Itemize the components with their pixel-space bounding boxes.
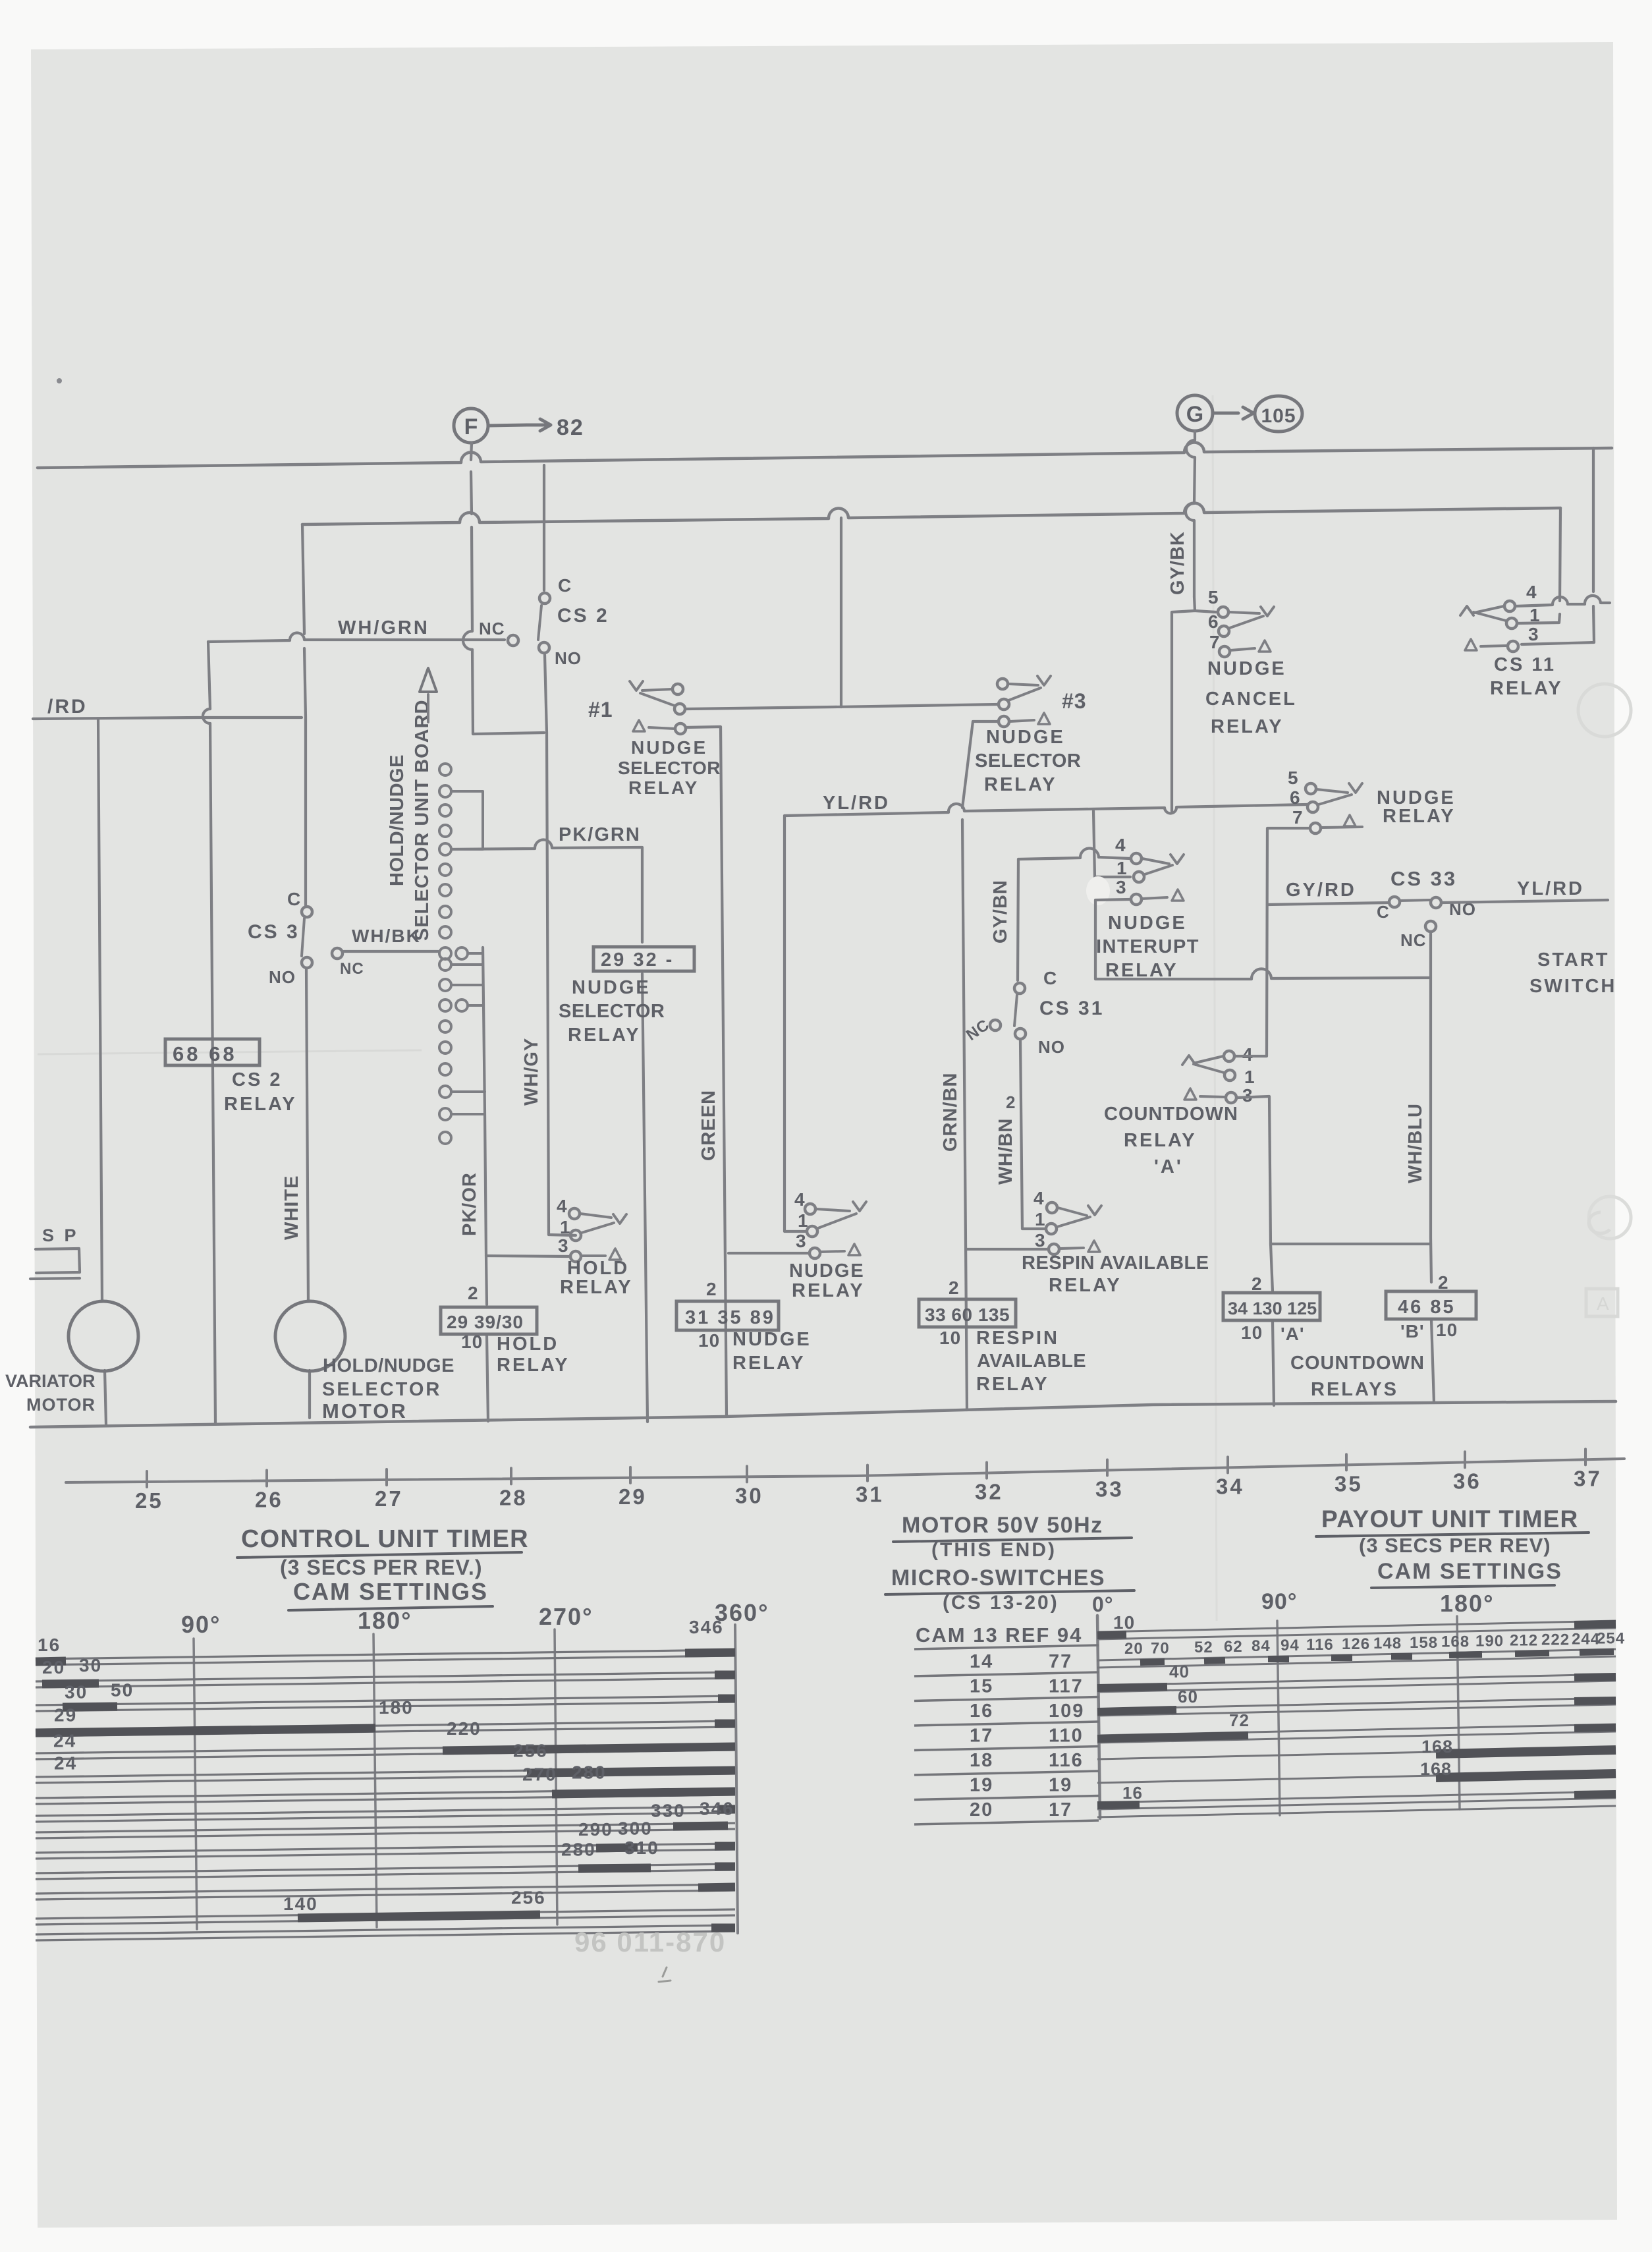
svg-text:RELAY: RELAY: [1105, 960, 1178, 981]
connector pin circle 10: [439, 947, 451, 959]
svg-text:CANCEL: CANCEL: [1205, 689, 1297, 710]
connector pin circle 14: [439, 1021, 451, 1032]
svg-text:A: A: [1597, 1293, 1609, 1314]
payout chart row cam20: [1097, 1791, 1616, 1803]
connector pin circle 16: [439, 1063, 451, 1075]
wire YL/RD tee down to interrupt relay: [1093, 811, 1130, 877]
svg-text:26: 26: [255, 1487, 283, 1511]
svg-text:MICRO-SWITCHES: MICRO-SWITCHES: [891, 1565, 1105, 1590]
svg-text:33: 33: [1095, 1477, 1124, 1502]
ruler tick 29: [629, 1467, 632, 1483]
svg-text:NUDGE: NUDGE: [1207, 658, 1286, 679]
svg-text:CS 31: CS 31: [1039, 998, 1104, 1019]
connector pin circle 1: [439, 764, 451, 775]
svg-text:50: 50: [111, 1679, 134, 1700]
payout chart row cam14 with angle labels: [1097, 1649, 1616, 1660]
connector pin circle 8: [439, 906, 451, 918]
svg-text:RELAY: RELAY: [568, 1025, 641, 1046]
node G with arrow to node 105: [1177, 395, 1213, 431]
svg-text:START: START: [1537, 949, 1610, 971]
svg-text:168: 168: [1441, 1633, 1470, 1651]
svg-text:29 32 -: 29 32 -: [601, 949, 674, 971]
ruler tick 28: [510, 1468, 512, 1484]
svg-text:2: 2: [1252, 1274, 1263, 1294]
wire WH/GY vertical: [545, 655, 576, 1235]
svg-text:PK/OR: PK/OR: [459, 1172, 480, 1236]
svg-text:RESPIN AVAILABLE: RESPIN AVAILABLE: [1022, 1253, 1209, 1274]
svg-text:19: 19: [1049, 1775, 1072, 1796]
svg-text:'B': 'B': [1400, 1321, 1425, 1341]
gridline 90: [194, 1639, 197, 1929]
svg-text:INTERUPT: INTERUPT: [1096, 936, 1199, 957]
svg-text:NC: NC: [479, 619, 505, 638]
svg-text:34: 34: [1216, 1474, 1244, 1498]
svg-text:256: 256: [513, 1740, 548, 1760]
svg-text:180°: 180°: [358, 1607, 412, 1634]
ruler tick 30: [746, 1466, 748, 1482]
white-out patch: [1086, 876, 1110, 905]
svg-text:5: 5: [1208, 587, 1219, 607]
svg-text:RELAY: RELAY: [976, 1374, 1049, 1395]
gridline 180: [373, 1634, 377, 1927]
svg-text:110: 110: [1049, 1726, 1084, 1747]
svg-text:15: 15: [970, 1676, 993, 1697]
wire from CS31-C left-up and right to contact 4: [1018, 848, 1130, 859]
wire PK/OR vertical: [483, 947, 488, 1421]
svg-text:10: 10: [1241, 1322, 1263, 1343]
svg-text:126: 126: [1342, 1635, 1370, 1653]
svg-text:RELAY: RELAY: [1049, 1275, 1122, 1296]
svg-text:35: 35: [1335, 1471, 1363, 1496]
cam row 1 lines: [36, 1650, 735, 1659]
svg-text:C: C: [1043, 968, 1057, 988]
connector pin circle 18: [439, 1108, 451, 1120]
relay contact nudge cancel: [1194, 597, 1216, 612]
connector pin circle 4: [439, 825, 451, 837]
svg-text:SELECTOR UNIT BOARD: SELECTOR UNIT BOARD: [412, 700, 433, 941]
cam row 3 lines: [36, 1696, 735, 1705]
cam row 12 lines: [36, 1884, 735, 1894]
ruler tick 34: [1226, 1457, 1229, 1473]
svg-text:CS 11: CS 11: [1494, 654, 1556, 675]
svg-text:4: 4: [1033, 1188, 1045, 1208]
wire from main bus down right: [1522, 448, 1594, 644]
contact NC of CS2 relay: [508, 635, 518, 646]
svg-text:30: 30: [735, 1483, 763, 1507]
svg-text:29 39/30: 29 39/30: [447, 1312, 524, 1332]
svg-text:84: 84: [1252, 1637, 1271, 1655]
svg-text:WH/GY: WH/GY: [521, 1038, 542, 1106]
svg-text:310: 310: [624, 1838, 659, 1858]
svg-text:GRN/BN: GRN/BN: [940, 1073, 961, 1152]
contact NC + wire WH/BK: [332, 948, 343, 959]
svg-text:30: 30: [65, 1681, 88, 1702]
svg-text:RELAY: RELAY: [1211, 716, 1284, 737]
svg-text:NUDGE: NUDGE: [789, 1260, 865, 1281]
wire GY/RD: [1267, 903, 1389, 905]
switch CS3: [302, 907, 312, 917]
svg-text:36: 36: [1453, 1469, 1481, 1493]
svg-text:62: 62: [1224, 1638, 1243, 1656]
svg-text:CS 2: CS 2: [232, 1069, 282, 1090]
svg-text:SWITCH: SWITCH: [1529, 976, 1616, 997]
svg-text:NO: NO: [269, 967, 296, 987]
svg-text:RELAY: RELAY: [792, 1280, 865, 1301]
svg-text:27: 27: [375, 1486, 403, 1511]
svg-text:CAM 13 REF 94: CAM 13 REF 94: [916, 1623, 1082, 1647]
svg-text:20: 20: [1124, 1640, 1143, 1658]
gridline 270: [555, 1629, 557, 1925]
connector stub wires low: [451, 1092, 485, 1114]
svg-text:300: 300: [618, 1818, 653, 1838]
svg-text:28: 28: [499, 1485, 528, 1509]
svg-text:31: 31: [856, 1482, 884, 1507]
svg-text:254: 254: [1597, 1630, 1625, 1648]
svg-text:1: 1: [1244, 1067, 1255, 1087]
svg-text:7: 7: [1292, 807, 1304, 828]
payout chart row cam16: [1097, 1698, 1616, 1709]
svg-text:HOLD/NUDGE: HOLD/NUDGE: [323, 1355, 454, 1376]
svg-text:3: 3: [558, 1235, 569, 1256]
svg-text:4: 4: [1242, 1044, 1253, 1065]
svg-text:34 130 125: 34 130 125: [1228, 1299, 1317, 1318]
connector stub wires mid: [451, 953, 483, 1005]
svg-text:RELAY: RELAY: [560, 1277, 633, 1298]
svg-text:109: 109: [1049, 1701, 1084, 1722]
svg-text:116: 116: [1306, 1636, 1334, 1654]
ruler tick 35: [1345, 1454, 1348, 1470]
svg-text:52: 52: [1194, 1639, 1213, 1656]
faint stamp box: [1586, 1289, 1618, 1316]
svg-text:NUDGE: NUDGE: [986, 727, 1065, 748]
svg-text:C: C: [558, 575, 572, 596]
relay contact #3 nudge selector: [997, 679, 1008, 689]
svg-text:10: 10: [698, 1330, 720, 1351]
payout chart row cam19: [1097, 1772, 1616, 1783]
svg-text:290: 290: [578, 1819, 613, 1840]
svg-text:10: 10: [939, 1328, 961, 1348]
svg-text:222: 222: [1541, 1631, 1570, 1648]
cam row 5 lines: [36, 1744, 735, 1753]
svg-text:6: 6: [1208, 611, 1219, 632]
svg-text:RELAY: RELAY: [497, 1355, 570, 1376]
gridline 90 deg: [1277, 1621, 1280, 1815]
svg-text:NUDGE: NUDGE: [1108, 913, 1187, 934]
svg-text:PAYOUT UNIT TIMER: PAYOUT UNIT TIMER: [1321, 1506, 1578, 1533]
svg-text:4: 4: [794, 1189, 806, 1210]
cam row 4 lines: [36, 1721, 735, 1730]
svg-text:10: 10: [1113, 1612, 1135, 1633]
svg-text:16: 16: [970, 1701, 993, 1722]
svg-text:2: 2: [468, 1283, 479, 1303]
svg-text:70: 70: [1151, 1639, 1170, 1657]
svg-text:SELECTOR: SELECTOR: [618, 758, 721, 778]
svg-text:10: 10: [1436, 1320, 1458, 1340]
svg-text:3: 3: [796, 1231, 807, 1251]
svg-text:WH/GRN: WH/GRN: [338, 617, 429, 638]
svg-text:RELAY: RELAY: [984, 774, 1057, 795]
svg-text:168: 168: [1421, 1737, 1453, 1757]
svg-text:0°: 0°: [1092, 1592, 1114, 1616]
wire CS3/WHITE vertical: [302, 524, 310, 1418]
svg-text:YL/RD: YL/RD: [1517, 878, 1584, 899]
cam row 8 lines: [36, 1807, 735, 1816]
speck: [57, 378, 62, 383]
wire YL/RD right: [1442, 900, 1608, 903]
svg-text:NUDGE: NUDGE: [732, 1329, 812, 1350]
payout chart row cam17: [1097, 1724, 1616, 1735]
svg-text:24: 24: [53, 1731, 76, 1751]
paper crease horizontal: [38, 1050, 422, 1054]
svg-text:4: 4: [1115, 835, 1126, 855]
svg-text:GREEN: GREEN: [698, 1090, 719, 1161]
svg-text:94: 94: [1280, 1637, 1300, 1654]
svg-text:(3 SECS PER REV.): (3 SECS PER REV.): [280, 1556, 482, 1579]
wire WH/BN from CS31 NO down: [1020, 1041, 1045, 1229]
wire: G drop through buses: [1186, 431, 1195, 597]
ruler tick 33: [1106, 1460, 1109, 1476]
svg-text:2: 2: [706, 1279, 717, 1299]
connector pin circle 17: [439, 1086, 451, 1098]
svg-text:HOLD: HOLD: [497, 1334, 559, 1355]
svg-text:CS 2: CS 2: [557, 605, 609, 627]
switch CS31: [1014, 983, 1025, 994]
relay box 68 68 (CS2 relay coil): [165, 1039, 260, 1065]
svg-text:3: 3: [1116, 877, 1127, 897]
svg-text:37: 37: [1574, 1466, 1602, 1490]
svg-text:RELAY: RELAY: [732, 1353, 806, 1374]
svg-text:270°: 270°: [539, 1603, 593, 1630]
svg-text:256: 256: [511, 1887, 546, 1907]
svg-text:WH/BLU: WH/BLU: [1405, 1103, 1426, 1183]
cam row 13 lines: [36, 1909, 735, 1919]
wire PK/GRN: [451, 839, 647, 1422]
svg-text:168: 168: [1420, 1759, 1452, 1779]
svg-text:3: 3: [1035, 1230, 1046, 1251]
svg-text:158: 158: [1410, 1634, 1438, 1652]
svg-text:180: 180: [379, 1697, 414, 1718]
svg-text:33 60 135: 33 60 135: [925, 1305, 1010, 1325]
svg-text:32: 32: [975, 1480, 1003, 1504]
wire /RD: [33, 718, 302, 719]
wire: F drop to main bus and beyond: [463, 443, 544, 734]
svg-text:148: 148: [1373, 1635, 1402, 1652]
svg-text:3: 3: [1242, 1085, 1253, 1106]
payout chart row cam13: [1097, 1621, 1616, 1632]
svg-text:YL/RD: YL/RD: [823, 793, 890, 814]
svg-text:6: 6: [1290, 787, 1301, 808]
svg-text:NO: NO: [1038, 1037, 1065, 1057]
svg-text:MOTOR: MOTOR: [26, 1395, 96, 1415]
svg-text:RELAY: RELAY: [1124, 1130, 1197, 1151]
svg-text:2: 2: [1438, 1272, 1449, 1293]
svg-text:CS 3: CS 3: [248, 921, 300, 943]
wire V from second bus: [840, 518, 842, 707]
svg-text:CAM SETTINGS: CAM SETTINGS: [293, 1578, 488, 1605]
ruler tick 36: [1464, 1451, 1466, 1467]
ruler tick 32: [985, 1463, 988, 1478]
svg-text:WH/BN: WH/BN: [995, 1118, 1016, 1185]
gridline 360 / right edge: [735, 1625, 738, 1933]
svg-text:RESPIN: RESPIN: [976, 1328, 1059, 1349]
ruler tick 31: [866, 1465, 869, 1481]
wire bottom bus: [30, 1401, 1616, 1427]
svg-text:PK/GRN: PK/GRN: [559, 824, 641, 845]
svg-text:116: 116: [1049, 1750, 1084, 1771]
cam row 6 lines: [36, 1768, 735, 1777]
wire variator branch: [98, 719, 106, 1424]
svg-text:68 68: 68 68: [173, 1042, 237, 1065]
svg-text:5: 5: [1288, 768, 1299, 788]
svg-text:24: 24: [54, 1753, 77, 1774]
svg-text:MOTOR 50V 50Hz: MOTOR 50V 50Hz: [902, 1513, 1103, 1538]
svg-text:(CS 13-20): (CS 13-20): [943, 1592, 1059, 1614]
cam row 14 lines: [36, 1925, 735, 1934]
wire WH/BLU: [1431, 934, 1434, 1403]
ruler tick 26: [265, 1470, 268, 1486]
connector pin circle 3: [439, 804, 451, 816]
svg-text:'A': 'A': [1154, 1156, 1183, 1177]
relay box 29 32 -: [593, 947, 694, 971]
svg-text:GY/BN: GY/BN: [990, 880, 1011, 943]
svg-text:17: 17: [1049, 1799, 1072, 1820]
svg-text:4: 4: [557, 1196, 568, 1216]
svg-text:280: 280: [572, 1762, 607, 1782]
svg-text:/RD: /RD: [47, 696, 88, 718]
svg-text:COUNTDOWN: COUNTDOWN: [1104, 1104, 1238, 1125]
wire from second bus down: [1518, 508, 1560, 623]
svg-text:96 011-870: 96 011-870: [574, 1927, 726, 1957]
svg-text:NUDGE: NUDGE: [572, 977, 651, 998]
svg-text:2: 2: [1006, 1092, 1016, 1112]
svg-text:90°: 90°: [181, 1611, 221, 1638]
svg-text:G: G: [1186, 402, 1203, 427]
svg-text:CAM SETTINGS: CAM SETTINGS: [1377, 1559, 1562, 1584]
cam row 2 lines: [36, 1672, 735, 1681]
wire YL/RD with drop: [785, 804, 1307, 816]
svg-text:SELECTOR: SELECTOR: [559, 1001, 665, 1022]
svg-text:NUDGE: NUDGE: [631, 737, 707, 758]
connector bracket wires top: [451, 791, 483, 849]
faint stamp circle 2: [1589, 1196, 1631, 1239]
svg-text:17: 17: [970, 1726, 993, 1747]
svg-text:C: C: [1377, 902, 1390, 922]
svg-text:16: 16: [1122, 1783, 1143, 1803]
svg-text:346: 346: [700, 1799, 734, 1819]
relay contact CS11: [1504, 601, 1515, 611]
cam row 7 lines: [36, 1789, 735, 1798]
connector pin circle 15: [439, 1042, 451, 1054]
svg-text:18: 18: [970, 1750, 993, 1771]
svg-text:20: 20: [970, 1799, 993, 1820]
svg-text:(THIS END): (THIS END): [931, 1539, 1057, 1561]
svg-text:40: 40: [1169, 1662, 1190, 1681]
svg-text:244: 244: [1572, 1630, 1600, 1648]
svg-text:14: 14: [970, 1651, 993, 1672]
connector pin circle 6: [439, 864, 451, 876]
svg-text:NO: NO: [555, 648, 582, 668]
gridline 0 deg: [1097, 1616, 1100, 1818]
svg-text:CS 33: CS 33: [1390, 867, 1457, 890]
connector pin circle 9: [439, 926, 451, 938]
ruler tick 27: [385, 1469, 388, 1485]
hold/nudge selector motor M2: [275, 1301, 345, 1371]
svg-text:25: 25: [135, 1488, 163, 1513]
payout chart row cam15: [1097, 1674, 1616, 1685]
svg-text:RELAY: RELAY: [628, 777, 699, 798]
svg-text:212: 212: [1510, 1631, 1538, 1649]
connector pin circle 11: [439, 959, 451, 971]
svg-text:MOTOR: MOTOR: [322, 1399, 408, 1422]
svg-text:NC: NC: [340, 960, 364, 978]
svg-text:280: 280: [561, 1839, 596, 1859]
cam row 10 lines: [36, 1844, 735, 1853]
svg-text:105: 105: [1261, 405, 1296, 427]
connector pin circle 2: [439, 785, 451, 797]
svg-text:72: 72: [1229, 1710, 1250, 1730]
svg-text:220: 220: [447, 1718, 482, 1739]
connector pin circle 12: [439, 979, 451, 991]
svg-text:F: F: [464, 414, 478, 439]
svg-text:HOLD: HOLD: [567, 1258, 629, 1279]
switch CS2: [543, 465, 545, 590]
connector pin pair circles: [456, 947, 468, 959]
svg-text:270: 270: [522, 1764, 557, 1784]
svg-text:RELAY: RELAY: [224, 1094, 297, 1115]
svg-text:C: C: [287, 889, 301, 909]
svg-text:20: 20: [42, 1657, 65, 1677]
svg-text:#1: #1: [588, 698, 613, 721]
svg-text:346: 346: [689, 1617, 724, 1637]
svg-text:30: 30: [79, 1655, 102, 1675]
svg-text:S P: S P: [42, 1225, 79, 1245]
svg-text:SELECTOR: SELECTOR: [975, 750, 1081, 772]
ruler tick 37: [1584, 1449, 1587, 1465]
svg-text:3: 3: [1528, 624, 1539, 644]
contact NC of start switch: [1425, 921, 1436, 932]
svg-text:AVAILABLE: AVAILABLE: [977, 1351, 1086, 1372]
svg-text:46 85: 46 85: [1398, 1297, 1456, 1318]
connector pin circle 19: [439, 1132, 451, 1144]
svg-text:60: 60: [1178, 1687, 1198, 1706]
svg-text:117: 117: [1049, 1676, 1084, 1697]
svg-text:VARIATOR: VARIATOR: [5, 1371, 96, 1391]
svg-text:19: 19: [970, 1775, 993, 1796]
svg-text:WH/BK: WH/BK: [352, 926, 421, 946]
wire WH/GRN: [208, 633, 505, 642]
svg-text:SELECTOR: SELECTOR: [322, 1379, 441, 1400]
svg-text:90°: 90°: [1261, 1589, 1297, 1614]
payout chart row cam18: [1097, 1748, 1616, 1759]
svg-text:'A': 'A': [1280, 1324, 1305, 1344]
wire WHITE vertical (CS2 relay branch): [203, 642, 215, 1423]
svg-text:1: 1: [1529, 605, 1541, 625]
svg-text:CONTROL UNIT TIMER: CONTROL UNIT TIMER: [241, 1525, 529, 1553]
svg-text:(3 SECS PER REV): (3 SECS PER REV): [1359, 1534, 1551, 1557]
gridline 180 deg: [1457, 1616, 1460, 1809]
svg-text:#3: #3: [1062, 689, 1087, 713]
svg-text:1: 1: [1116, 858, 1128, 878]
svg-text:4: 4: [1526, 582, 1537, 602]
svg-text:77: 77: [1049, 1651, 1072, 1672]
svg-text:HOLD/NUDGE: HOLD/NUDGE: [387, 754, 408, 886]
svg-text:10: 10: [461, 1332, 483, 1352]
connector pin circle 5: [439, 843, 451, 855]
svg-text:GY/BK: GY/BK: [1167, 531, 1188, 595]
svg-text:GY/RD: GY/RD: [1286, 880, 1356, 901]
svg-text:1: 1: [1035, 1209, 1046, 1229]
cam row 11 lines: [36, 1864, 735, 1873]
